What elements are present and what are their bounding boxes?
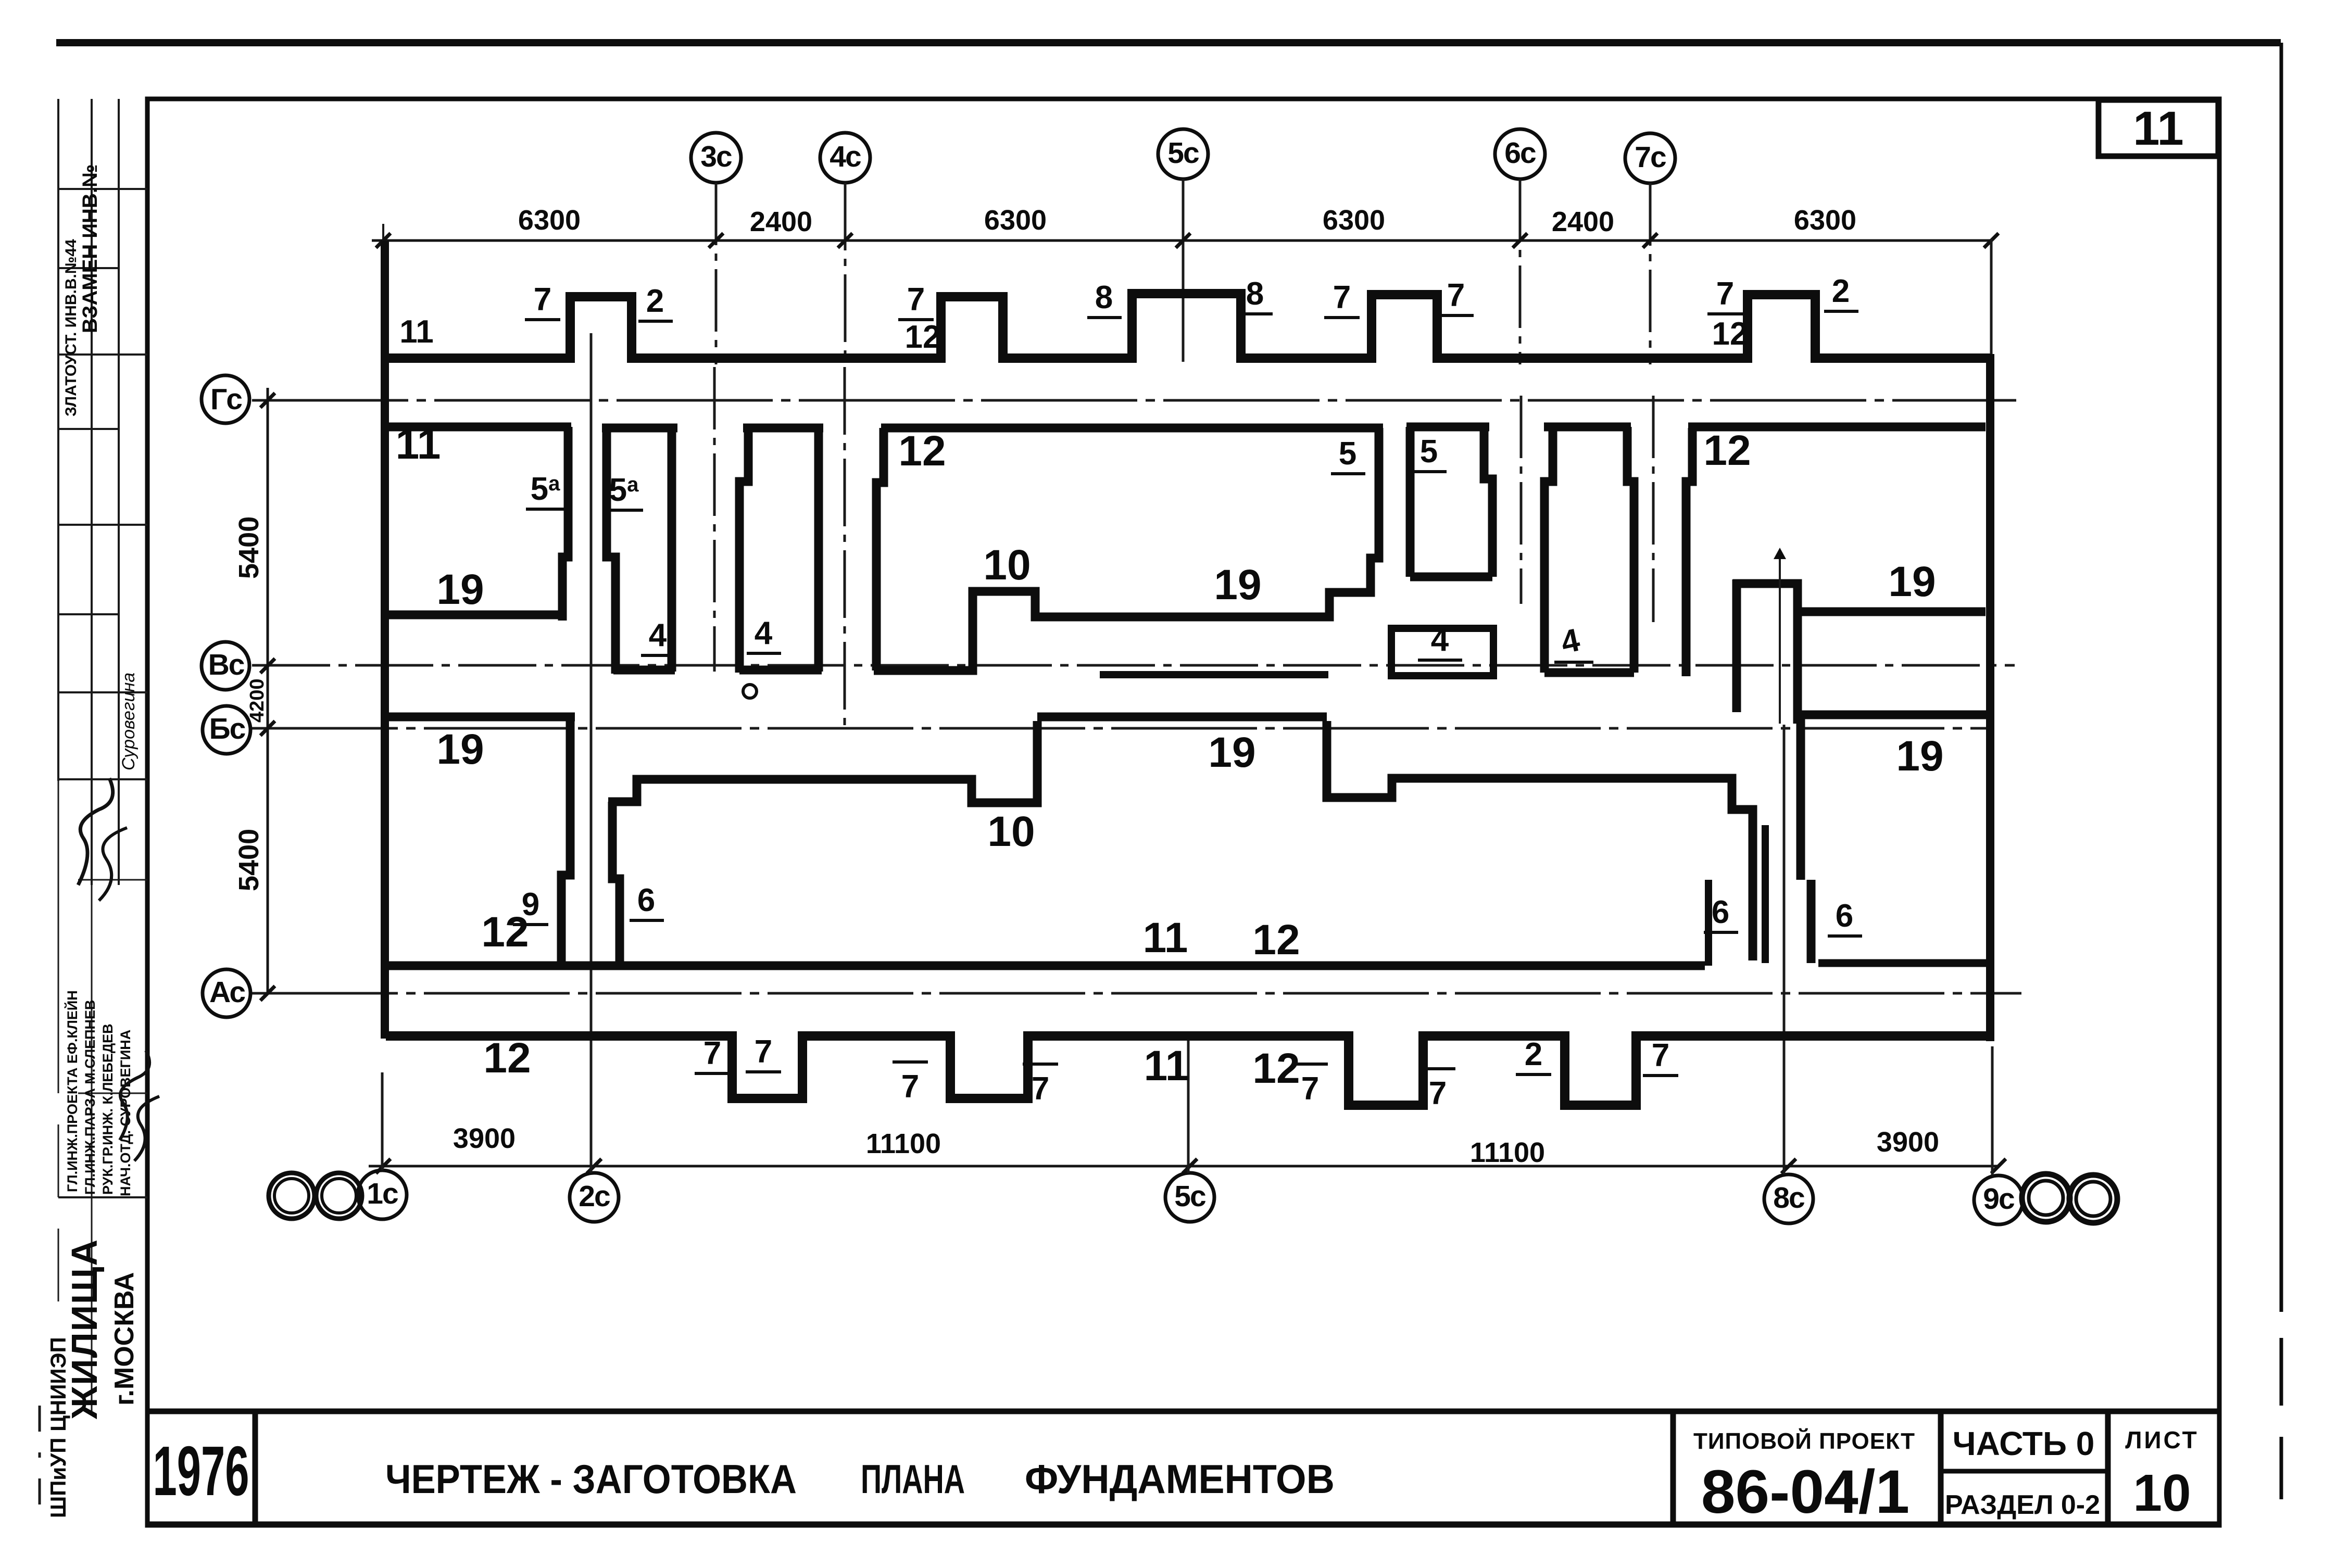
svg-text:2: 2 xyxy=(1832,273,1850,309)
boxed room 4 xyxy=(1391,628,1493,676)
room B right wall xyxy=(668,428,676,672)
svg-text:4200: 4200 xyxy=(246,678,268,723)
svg-text:19: 19 xyxy=(1208,729,1255,776)
axis line 7s xyxy=(1650,183,1653,622)
svg-text:7: 7 xyxy=(901,1069,919,1105)
top dimension line xyxy=(372,239,1991,242)
svg-text:5: 5 xyxy=(1420,434,1438,470)
svg-text:1976: 1976 xyxy=(153,1432,249,1510)
svg-text:РУК.ГР.ИНЖ. К.ЛЕБЕДЕВ: РУК.ГР.ИНЖ. К.ЛЕБЕДЕВ xyxy=(100,1023,116,1195)
svg-text:РАЗДЕЛ 0-2: РАЗДЕЛ 0-2 xyxy=(1945,1490,2100,1520)
sheet cell xyxy=(2105,1411,2111,1524)
building right edge wall xyxy=(1986,354,1994,1041)
svg-text:4: 4 xyxy=(755,615,773,651)
bottom axis circle 2s xyxy=(570,1173,619,1222)
svg-text:7: 7 xyxy=(1716,276,1734,312)
axis line 5s bottom xyxy=(1187,1039,1190,1173)
project cell xyxy=(1670,1411,1676,1524)
svg-text:7: 7 xyxy=(755,1034,772,1070)
bottom dimension line xyxy=(369,1165,1999,1168)
As wall main xyxy=(383,962,1705,970)
svg-text:7: 7 xyxy=(1301,1071,1319,1107)
svg-text:5400: 5400 xyxy=(233,829,265,891)
svg-text:1с: 1с xyxy=(367,1177,398,1210)
bottom axis circle 1s xyxy=(358,1170,407,1219)
svg-text:6300: 6300 xyxy=(518,205,581,236)
big central room left wall xyxy=(876,428,884,671)
svg-text:2400: 2400 xyxy=(750,206,812,237)
svg-text:6300: 6300 xyxy=(1794,205,1856,236)
svg-text:86-04/1: 86-04/1 xyxy=(1701,1458,1909,1526)
svg-text:НАЧ.ОТД. СУРОВЕГИНА: НАЧ.ОТД. СУРОВЕГИНА xyxy=(118,1030,133,1196)
room V top wall xyxy=(743,424,823,433)
svg-text:2400: 2400 xyxy=(1552,206,1614,237)
section leader line xyxy=(1779,551,1781,724)
svg-text:Ас: Ас xyxy=(209,976,245,1009)
svg-text:19: 19 xyxy=(1214,561,1261,609)
svg-text:2: 2 xyxy=(1525,1036,1542,1072)
svg-text:12: 12 xyxy=(898,427,946,475)
year cell 1976 xyxy=(253,1411,258,1524)
axis circle Gs xyxy=(202,375,249,423)
label 7 overlined south second xyxy=(1023,1063,1058,1066)
room A right wall / stair shaft left xyxy=(562,427,568,621)
south outer wall with down bumps xyxy=(386,1036,1992,1105)
svg-text:19: 19 xyxy=(1896,732,1943,780)
svg-text:11: 11 xyxy=(396,421,441,468)
title block xyxy=(147,1411,2219,1526)
small circle mark xyxy=(743,685,757,698)
svg-text:8: 8 xyxy=(1246,276,1264,312)
axis line 4s xyxy=(845,183,845,726)
svg-text:7: 7 xyxy=(907,282,925,318)
axis Bs horizontal line xyxy=(252,727,1991,730)
left dimension line xyxy=(267,388,269,993)
top axis circle 5s xyxy=(1158,129,1208,179)
room D bottom wall xyxy=(1544,668,1634,677)
svg-text:10: 10 xyxy=(2133,1464,2191,1522)
svg-text:ПЛАНА: ПЛАНА xyxy=(861,1456,965,1502)
svg-text:12: 12 xyxy=(1252,1045,1300,1092)
svg-text:ЗЛАТОУСТ. ИНВ.В.№44: ЗЛАТОУСТ. ИНВ.В.№44 xyxy=(62,239,80,416)
svg-text:4: 4 xyxy=(1431,622,1449,658)
pier wall at 8s east xyxy=(1801,715,1811,963)
room E bottom platform xyxy=(1733,584,1798,724)
svg-text:г.МОСКВА: г.МОСКВА xyxy=(109,1272,140,1406)
lower rooms top boundary east of 5s xyxy=(1327,721,1753,960)
label 7 overlined south left xyxy=(893,1060,928,1064)
sidebar column line 2 xyxy=(91,99,93,885)
axis line 5s top xyxy=(1182,179,1185,362)
bottom left double ring circles xyxy=(269,1173,315,1219)
room D left wall xyxy=(1544,427,1553,673)
room E bottom ledge xyxy=(1798,608,1986,616)
page number box 11 xyxy=(2099,100,2218,156)
bottom axis circle 5s xyxy=(1165,1173,1214,1222)
svg-text:12: 12 xyxy=(1703,427,1751,474)
svg-text:3900: 3900 xyxy=(453,1123,516,1154)
svg-text:12: 12 xyxy=(905,319,941,355)
svg-text:6300: 6300 xyxy=(1323,205,1385,236)
room V bottom wall xyxy=(739,666,822,675)
svg-text:11: 11 xyxy=(1144,1042,1189,1090)
axis line 3s xyxy=(714,183,716,672)
room A bottom wall xyxy=(386,611,566,619)
svg-text:7: 7 xyxy=(534,282,551,318)
svg-text:8: 8 xyxy=(1095,280,1113,315)
sheet outer right edge line xyxy=(2280,43,2283,1499)
svg-text:ВЗАМЕН ИНВ.№: ВЗАМЕН ИНВ.№ xyxy=(79,164,102,333)
svg-text:4с: 4с xyxy=(830,140,861,173)
room 5 box top wall xyxy=(1406,423,1489,432)
svg-text:11: 11 xyxy=(2133,102,2183,155)
sidebar column line 1 xyxy=(57,99,59,781)
room A top wall xyxy=(386,423,571,432)
svg-text:11: 11 xyxy=(1143,914,1188,962)
svg-text:6: 6 xyxy=(637,882,655,918)
room B top wall xyxy=(602,424,677,433)
part cell xyxy=(1938,1411,1944,1524)
building left edge wall xyxy=(381,241,389,1039)
svg-text:19: 19 xyxy=(1888,558,1936,605)
room 5 box left wall xyxy=(1406,427,1415,577)
svg-text:7: 7 xyxy=(1652,1038,1669,1073)
svg-text:5400: 5400 xyxy=(233,516,265,579)
Bs wall right segment xyxy=(1795,711,1989,719)
label 7 overlined south third xyxy=(1292,1063,1328,1066)
svg-text:6с: 6с xyxy=(1504,136,1536,170)
big central room bottom stair profile xyxy=(874,428,1379,671)
room D right wall xyxy=(1627,427,1634,673)
svg-text:12: 12 xyxy=(1252,916,1300,964)
axis circle Vs xyxy=(202,642,249,690)
svg-text:5с: 5с xyxy=(1167,136,1199,170)
svg-text:Бс: Бс xyxy=(209,712,246,745)
lower central room left wall inner xyxy=(612,802,620,963)
room V left wall xyxy=(739,428,748,673)
room 5 box right wall xyxy=(1484,428,1492,577)
svg-text:ГЛ.ИНЖ.ПРОЕКТА ЕФ.КЛЕЙН: ГЛ.ИНЖ.ПРОЕКТА ЕФ.КЛЕЙН xyxy=(64,990,80,1192)
svg-text:Вс: Вс xyxy=(208,648,245,681)
svg-text:12: 12 xyxy=(1712,316,1748,352)
stair shaft right wall / room B left xyxy=(607,427,615,674)
svg-text:19: 19 xyxy=(436,566,484,613)
svg-text:7: 7 xyxy=(1429,1076,1447,1111)
svg-text:6: 6 xyxy=(1712,894,1729,930)
svg-text:Гс: Гс xyxy=(210,383,242,416)
svg-text:ЧЕРТЕЖ - ЗАГОТОВКА: ЧЕРТЕЖ - ЗАГОТОВКА xyxy=(385,1456,797,1502)
label 7 overlined south fourth xyxy=(1420,1067,1455,1070)
top axis circle 7s xyxy=(1625,133,1675,183)
sidebar column line 3 xyxy=(118,99,120,885)
bottom axis circle 8s xyxy=(1764,1174,1813,1223)
svg-text:ФУНДАМЕНТОВ: ФУНДАМЕНТОВ xyxy=(1025,1456,1335,1502)
title block top line xyxy=(147,1409,2219,1414)
svg-text:7: 7 xyxy=(1333,280,1351,315)
left sidebar stamp columns xyxy=(40,99,159,1518)
north outer wall with bumps xyxy=(381,294,1990,358)
axis line 6s xyxy=(1520,179,1521,604)
svg-text:ЛИСТ: ЛИСТ xyxy=(2125,1426,2199,1453)
axis line 8s xyxy=(1783,725,1786,1174)
room D top wall xyxy=(1544,423,1631,432)
room V right wall xyxy=(814,428,823,672)
sidebar row dividers xyxy=(58,188,147,190)
axis Vs horizontal line xyxy=(252,664,2015,667)
svg-text:7: 7 xyxy=(1447,277,1465,313)
axis As horizontal line xyxy=(252,992,2021,995)
Bs wall middle segment xyxy=(1037,713,1327,722)
svg-text:11100: 11100 xyxy=(866,1128,941,1159)
axis line 9s xyxy=(1991,239,1992,1175)
svg-text:2с: 2с xyxy=(579,1180,610,1213)
svg-text:6: 6 xyxy=(1836,898,1853,934)
lower rooms top boundary west xyxy=(608,721,1037,803)
svg-text:11100: 11100 xyxy=(1470,1137,1545,1168)
axis line 2s xyxy=(590,333,593,1173)
svg-text:ГЛ.ИНЖ.ПАРЗА М.СЛЕПНЕВ: ГЛ.ИНЖ.ПАРЗА М.СЛЕПНЕВ xyxy=(82,1000,98,1195)
svg-text:6300: 6300 xyxy=(984,205,1047,236)
svg-text:ТИПОВОЙ ПРОЕКТ: ТИПОВОЙ ПРОЕКТ xyxy=(1693,1427,1915,1454)
bottom right double ring circles xyxy=(2022,1174,2070,1222)
svg-text:7с: 7с xyxy=(1635,141,1666,174)
title block bottom line xyxy=(147,1522,2219,1527)
axis line 1s xyxy=(381,1072,384,1170)
svg-text:7: 7 xyxy=(703,1035,721,1071)
wall left of platform xyxy=(1732,579,1741,712)
svg-text:10: 10 xyxy=(987,808,1035,855)
pier wall at 8s west xyxy=(1705,880,1712,966)
room E left wall xyxy=(1686,428,1692,676)
axis circle As xyxy=(203,969,250,1017)
svg-text:11: 11 xyxy=(399,314,434,350)
sheet top edge line xyxy=(56,39,2281,46)
svg-text:8с: 8с xyxy=(1773,1181,1805,1215)
svg-text:12: 12 xyxy=(481,908,529,956)
svg-text:10: 10 xyxy=(983,541,1031,589)
svg-text:7: 7 xyxy=(1032,1071,1049,1107)
svg-text:4: 4 xyxy=(649,617,667,653)
svg-text:5с: 5с xyxy=(1174,1180,1206,1213)
room B bottom wall xyxy=(613,666,675,675)
room E top wall xyxy=(1688,423,1986,432)
top axis circle 4s xyxy=(820,133,870,183)
svg-text:19: 19 xyxy=(436,726,484,773)
svg-text:2: 2 xyxy=(646,283,664,319)
svg-text:9с: 9с xyxy=(1983,1182,2015,1216)
top axis circle 3s xyxy=(691,133,741,183)
svg-text:ЧАСТЬ 0: ЧАСТЬ 0 xyxy=(1953,1425,2095,1462)
svg-text:3900: 3900 xyxy=(1877,1127,1939,1158)
pier wall at 8s inner xyxy=(1762,825,1769,963)
bottom axis circle 9s xyxy=(1974,1175,2023,1224)
axis circle Bs xyxy=(203,706,250,754)
room 5 box bottom wall xyxy=(1410,573,1492,581)
Bs wall left segment xyxy=(383,713,575,722)
svg-text:5: 5 xyxy=(1339,436,1356,472)
svg-text:Суровегина: Суровегина xyxy=(119,673,139,770)
axis Gs horizontal line xyxy=(252,399,2016,402)
svg-text:3с: 3с xyxy=(700,140,732,173)
big central room top wall xyxy=(881,424,1383,433)
svg-text:ШПиУП ЦНИИЭП: ШПиУП ЦНИИЭП xyxy=(46,1337,70,1518)
lower parallel wall under central room xyxy=(1100,671,1328,678)
lower central room left wall upper xyxy=(561,717,570,963)
top axis circle 6s xyxy=(1495,129,1545,179)
As wall right segment xyxy=(1818,959,1988,967)
svg-text:12: 12 xyxy=(483,1034,531,1082)
